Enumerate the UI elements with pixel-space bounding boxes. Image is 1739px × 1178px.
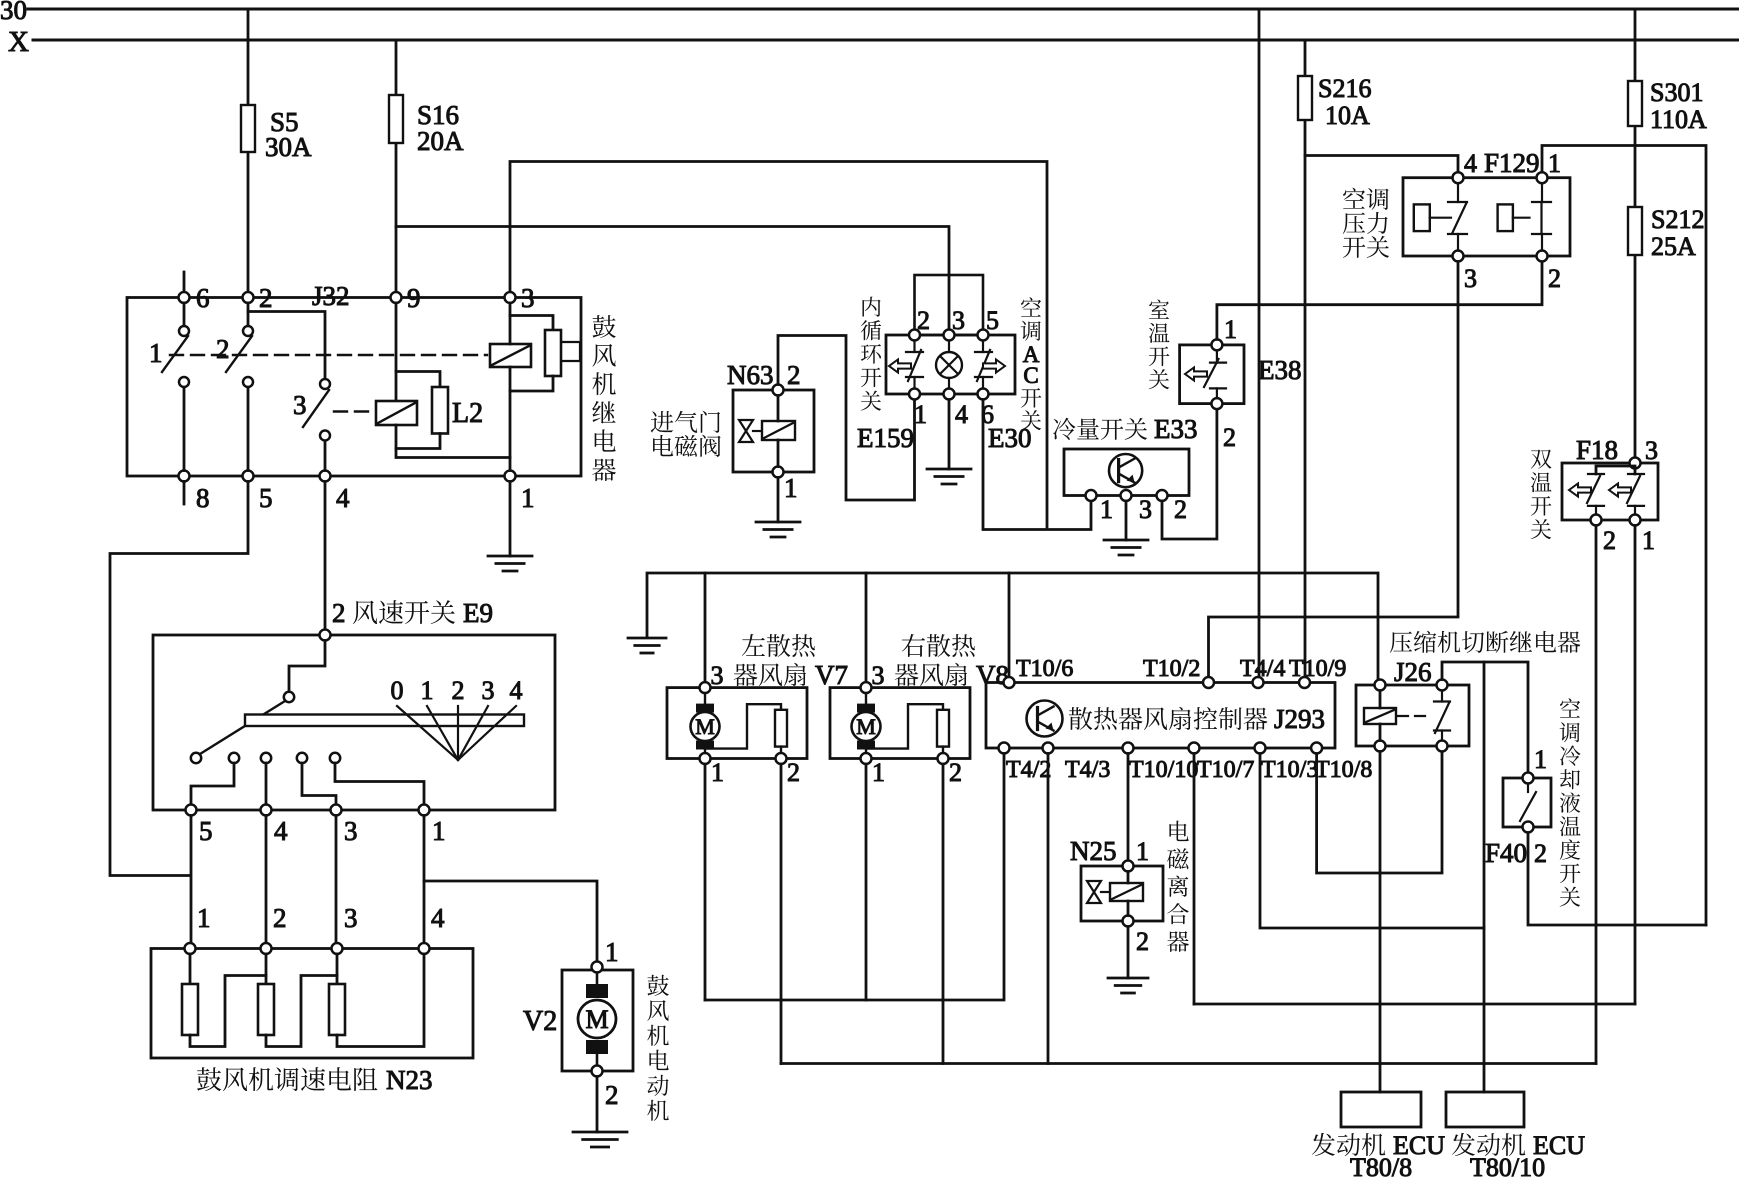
F18 right switch <box>1627 474 1644 515</box>
fuse S301 <box>1628 81 1642 126</box>
N25 pin 1 <box>1123 861 1134 872</box>
wire E9 pin1 node to V2 pin1 <box>424 881 597 960</box>
N23 pin 4 <box>419 943 430 954</box>
V2 pin 1 <box>592 962 603 973</box>
wire V7 pin2 down <box>780 764 783 1064</box>
E33 pin 1 <box>1086 490 1097 501</box>
fan V8 box <box>830 688 970 759</box>
fuse S212 <box>1628 207 1642 255</box>
wire V7 motor to resistor <box>705 704 781 748</box>
resistor N23-R3 <box>336 954 339 984</box>
wire N25 internal <box>1127 872 1130 916</box>
svg-text:2: 2 <box>332 598 346 628</box>
J26 dashed actuation <box>1398 715 1428 717</box>
wire T10/3 to ECU T80/10 net <box>1260 754 1484 929</box>
J32 pin 6 <box>179 292 190 303</box>
svg-text:3: 3 <box>344 903 358 933</box>
wire T10/10 to N25 pin1 <box>1127 754 1130 861</box>
label 散热器风扇控制器 J293 <box>1069 707 1268 730</box>
wire R3 to pin4 <box>337 954 424 1047</box>
E9 pin 4 <box>261 805 272 816</box>
J26 coil <box>1364 708 1396 724</box>
wire bus30 to J32 pin2 <box>247 9 250 293</box>
engine ECU T80/8 box <box>1341 1092 1421 1127</box>
wire E30 pin6 to E33 pin1 <box>983 400 1091 530</box>
F129 pin 1 <box>1537 172 1548 183</box>
ground below E159/E30 pin4 <box>927 469 971 484</box>
resistor R-J32 <box>545 330 561 376</box>
wire J293 T10/6 to rail <box>1008 573 1011 677</box>
svg-text:T10/10: T10/10 <box>1129 757 1198 783</box>
svg-text:30A: 30A <box>265 132 312 162</box>
wire ground rail to J26 TL pin <box>647 573 1378 680</box>
svg-text:E159: E159 <box>857 423 914 453</box>
F129 right pressure contact <box>1498 183 1551 250</box>
svg-text:2: 2 <box>949 758 962 787</box>
E9 position fan lines <box>397 706 516 760</box>
wire L2 bottom loop <box>396 434 440 449</box>
wire V7 pin1 down <box>704 764 707 1000</box>
E30 arrow <box>983 360 1005 373</box>
svg-text:1: 1 <box>605 937 619 967</box>
E159/E30 top link box <box>915 275 984 335</box>
wire J26 BL to ECU T80/8 <box>1379 752 1382 1093</box>
svg-text:1: 1 <box>1100 495 1113 524</box>
fuse S5 <box>241 105 255 152</box>
svg-text:5: 5 <box>199 816 213 846</box>
E9 contact a <box>191 753 201 763</box>
J26 coil leads <box>1379 691 1382 741</box>
E38 pin 1 <box>1211 339 1222 350</box>
E9 contact b <box>229 753 239 763</box>
F129 left pressure contact <box>1414 183 1467 250</box>
svg-text:25A: 25A <box>1651 232 1696 261</box>
J32 switch 3 <box>320 379 330 389</box>
wire S16 node to E159/E30 pin3 <box>396 227 949 331</box>
E30 pin 6 <box>978 389 989 400</box>
svg-text:2: 2 <box>216 334 230 364</box>
pin 6 stub <box>183 272 186 293</box>
wire contact e to pin1 <box>335 763 424 805</box>
motor V2 box <box>562 970 633 1071</box>
wire E33 pin3 to ground <box>1125 501 1128 540</box>
svg-text:T10/9: T10/9 <box>1289 656 1346 682</box>
wire busX to J32 pin9 <box>395 40 398 293</box>
F129 pin 2 <box>1537 251 1548 262</box>
label 空调冷却液温度开关 (AC coolant temperature switch) <box>1560 698 1581 906</box>
switch E159/E30 box <box>886 335 1015 394</box>
E9 rotor pivot <box>284 692 294 702</box>
clutch N25 box <box>1081 866 1163 921</box>
label 电磁离合器 (electromagnetic clutch) <box>1167 821 1189 952</box>
wire T4/3 to fan pin2 net <box>1047 754 1050 1064</box>
wire busX / S216 to J293 T10/9 <box>1304 40 1307 677</box>
bus 30 <box>28 8 1739 11</box>
relay coil K2 (J32) <box>376 401 417 425</box>
N63 pin 1 <box>773 467 784 478</box>
label 室温开关 (room temp switch) <box>1149 299 1170 389</box>
label 发动机 ECU T80/8 <box>1312 1133 1386 1156</box>
svg-text:T10/7: T10/7 <box>1197 757 1254 783</box>
svg-text:T80/8: T80/8 <box>1350 1153 1412 1178</box>
svg-text:E9: E9 <box>463 598 493 628</box>
wire E9 pin4 to N23 pin2 <box>265 816 268 944</box>
V2 motor symbol <box>578 973 616 1066</box>
E9 rotor feed wire <box>289 641 325 692</box>
label 空调压力开关 (AC pressure switch) <box>1343 188 1389 210</box>
J32 pin 4 <box>320 471 331 482</box>
svg-text:C: C <box>1023 363 1038 388</box>
svg-text:F40: F40 <box>1485 838 1527 868</box>
J293 pin T10/6 <box>1004 677 1015 688</box>
svg-text:4: 4 <box>431 903 445 933</box>
svg-text:1: 1 <box>1642 526 1655 555</box>
svg-text:6: 6 <box>196 283 210 313</box>
wire V8 pin3 to rail <box>865 573 868 682</box>
wire E38 pin1 to F129 pin2 <box>1217 262 1542 340</box>
relay J32 box <box>127 298 581 477</box>
resistor N23-R1 <box>189 954 192 984</box>
label 冷量开关 E33 <box>1053 418 1147 440</box>
ground below V2 <box>573 1132 627 1147</box>
svg-text:110A: 110A <box>1650 105 1707 134</box>
F129 pin 4 <box>1453 172 1464 183</box>
V7 pin 2 <box>776 753 787 764</box>
svg-text:1: 1 <box>421 676 434 705</box>
svg-text:N63: N63 <box>727 360 774 390</box>
svg-text:J32: J32 <box>312 281 350 311</box>
svg-text:S216: S216 <box>1318 74 1371 103</box>
wire J32 pin3 to pin1 through coil <box>509 303 512 471</box>
J32 switch 1 <box>183 303 186 326</box>
wire to resistor R-J32 <box>510 316 553 331</box>
svg-text:T4/4: T4/4 <box>1240 656 1285 682</box>
svg-text:3: 3 <box>482 676 495 705</box>
wire V8 pin1 down <box>865 764 868 1000</box>
wire bus30 to J293 T4/4 <box>1258 9 1261 677</box>
wire T10/7 down <box>1193 754 1196 1005</box>
F18 pin 1 <box>1630 515 1641 526</box>
relay coil L2 branch from pin9 <box>395 303 398 401</box>
J26 pin TL <box>1375 680 1386 691</box>
ground below N25 <box>1108 978 1148 993</box>
svg-text:T10/3: T10/3 <box>1261 757 1318 783</box>
fan V7 box <box>667 688 807 759</box>
resistor N23-R2 <box>265 954 268 984</box>
svg-text:2: 2 <box>1174 495 1187 524</box>
pin 3 <box>944 330 955 341</box>
fuse S216 <box>1298 76 1312 120</box>
N63 valve symbol <box>739 420 753 442</box>
svg-text:T10/6: T10/6 <box>1016 656 1073 682</box>
wire bus30 to S301/S212/F18 pin3 <box>1634 9 1637 458</box>
N25 valve symbol <box>1087 881 1101 903</box>
N25 coil <box>1110 883 1143 901</box>
wire J32 pin5 to N23 pin1 node <box>110 482 248 876</box>
V7 motor symbol <box>691 693 720 753</box>
wire to inductor L2 <box>396 372 440 388</box>
J293 pin T10/10 <box>1123 743 1134 754</box>
label 发动机 ECU T80/10 <box>1452 1133 1526 1156</box>
svg-text:1: 1 <box>914 400 927 429</box>
svg-text:1: 1 <box>872 758 885 787</box>
svg-text:5: 5 <box>259 483 273 513</box>
E9 pin 1 <box>419 805 430 816</box>
wire N63 pin2 to E159 pin1 <box>778 336 915 501</box>
wire V8 motor to resistor <box>866 704 943 748</box>
wire N63 pin1 to ground <box>777 478 780 523</box>
J26 pin BL <box>1375 741 1386 752</box>
svg-text:2: 2 <box>1223 423 1236 452</box>
svg-text:M: M <box>585 1005 608 1034</box>
svg-text:20A: 20A <box>417 126 464 156</box>
F18 internal link <box>1596 466 1635 474</box>
wire R1 to pin2 node <box>190 976 266 1047</box>
F18 right arrow <box>1609 484 1631 497</box>
wire N25 pin2 to ground <box>1127 927 1130 979</box>
svg-text:1: 1 <box>521 483 535 513</box>
J32 pin 3 <box>505 292 516 303</box>
engine ECU T80/10 box <box>1446 1092 1524 1127</box>
wire F40 pin2 to F129 pin1 net <box>1528 833 1706 926</box>
F40 pin 1 <box>1523 773 1534 784</box>
J32 pin 5 <box>243 471 254 482</box>
V8 pin 3 <box>861 682 872 693</box>
svg-text:3: 3 <box>293 390 307 420</box>
ground on rail <box>628 638 666 653</box>
relay coil K1 (J32) <box>490 344 531 367</box>
E9 contact c <box>261 753 271 763</box>
E9 contact track <box>245 715 524 727</box>
wire E33 pin2 to E38 pin2 <box>1162 409 1217 539</box>
svg-text:30: 30 <box>0 0 27 25</box>
wire J32 pin4 to E9 pin2 <box>324 482 327 630</box>
svg-text:E30: E30 <box>988 423 1032 453</box>
wire T10/7 to F18 pin1 net <box>1194 1003 1635 1006</box>
switch E38 box <box>1180 345 1244 404</box>
svg-text:N23: N23 <box>386 1065 433 1095</box>
svg-text:1: 1 <box>784 473 798 503</box>
svg-text:2: 2 <box>787 758 800 787</box>
ground below J32 pin1 <box>488 556 532 571</box>
wire J32 pin2 node to switch 3 <box>248 312 325 379</box>
svg-text:2: 2 <box>1136 927 1149 956</box>
N23 pin 3 <box>332 943 343 954</box>
J293 pin T4/2 <box>999 743 1010 754</box>
inductor L2 <box>432 387 448 434</box>
J293 pin T4/4 <box>1253 677 1264 688</box>
E9 pin 3 <box>331 805 342 816</box>
solenoid N63 box <box>733 390 814 472</box>
label 空调AC开关 (AC switch) <box>1021 297 1042 340</box>
E159 pin 2 <box>909 330 920 341</box>
wire pin4 to ground <box>948 400 951 470</box>
svg-text:J293: J293 <box>1274 704 1325 734</box>
wire F18 pin1 down to T10/7 net <box>1634 526 1637 1005</box>
switch E9 box <box>153 635 555 810</box>
wire F129 pin3 to J293 T10/2 <box>1209 262 1459 678</box>
wire branch to ECU T80/10 <box>1483 662 1486 1092</box>
svg-text:8: 8 <box>196 483 210 513</box>
J293 pin T10/3 <box>1255 743 1266 754</box>
wire J32 pin1 to ground <box>509 482 512 557</box>
label 风速开关 E9 <box>353 600 455 624</box>
V7 pin 1 <box>700 753 711 764</box>
svg-text:2: 2 <box>605 1080 619 1110</box>
label 压缩机切断继电器 (compressor cutoff relay) <box>1390 631 1581 653</box>
label 内循环开关 (recirculation switch) <box>861 297 882 411</box>
svg-text:5: 5 <box>986 306 999 335</box>
switch F18 box <box>1562 463 1658 520</box>
wire R2 to pin3 node <box>266 976 337 1047</box>
J293 pin T10/2 <box>1203 677 1214 688</box>
svg-text:T10/2: T10/2 <box>1143 656 1200 682</box>
wire F18 pin2 down to fan speed-2 net <box>1595 526 1598 1064</box>
svg-text:T4/2: T4/2 <box>1006 757 1051 783</box>
E33 pin 2 <box>1157 490 1168 501</box>
J293 transistor symbol <box>1027 701 1063 737</box>
wire resistor to pin2 <box>942 747 944 753</box>
svg-text:1: 1 <box>1534 745 1547 774</box>
svg-text:4: 4 <box>274 816 288 846</box>
svg-text:T10/8: T10/8 <box>1315 757 1372 783</box>
E33 transistor symbol <box>1109 454 1142 487</box>
label 右散热器风扇 V8 <box>902 634 975 657</box>
N23 pin 1 <box>185 943 196 954</box>
svg-text:3: 3 <box>344 816 358 846</box>
svg-text:E38: E38 <box>1258 355 1302 385</box>
controller J293 box <box>986 683 1335 749</box>
pin 8 stub <box>183 482 186 505</box>
wire fan pin1 net to T4/2 <box>705 754 1004 1001</box>
indicator lamp E30 unit <box>936 341 962 389</box>
J32 pin 2 <box>243 292 254 303</box>
E9 pin 2 <box>320 630 331 641</box>
connector bracket symbol <box>563 342 580 361</box>
label 双温开关 (dual temp switch) <box>1531 450 1552 540</box>
wire T10/8 to J26 pin BR <box>1317 752 1442 874</box>
wire resistor to pin1 line <box>510 376 553 391</box>
svg-text:0: 0 <box>391 676 404 705</box>
svg-text:V7: V7 <box>815 660 848 690</box>
svg-text:S301: S301 <box>1650 78 1703 107</box>
E159 recirculation switch symbol <box>906 341 923 389</box>
E9 pin 5 <box>186 805 197 816</box>
svg-text:1: 1 <box>197 903 211 933</box>
F18 left arrow <box>1569 484 1591 497</box>
label 左散热器风扇 V7 <box>742 634 815 657</box>
E38 arrow <box>1185 368 1207 381</box>
J32 actuation dashed line <box>170 354 487 356</box>
svg-text:1: 1 <box>432 816 446 846</box>
svg-text:M: M <box>695 714 715 739</box>
svg-text:T4/3: T4/3 <box>1065 757 1110 783</box>
J293 pin T10/7 <box>1189 743 1200 754</box>
svg-text:N25: N25 <box>1070 836 1117 866</box>
wire contact c to pin4 <box>265 763 268 805</box>
V8 pin 1 <box>861 753 872 764</box>
label 鼓风机电动机 (blower motor) <box>647 975 669 1121</box>
E33 pin 3 <box>1121 490 1132 501</box>
F129 pin 3 <box>1453 251 1464 262</box>
wire V2 pin2 to ground <box>596 1077 599 1133</box>
E38 switch symbol <box>1204 350 1226 398</box>
svg-text:2: 2 <box>452 676 465 705</box>
wire E9 pin5 to N23 pin1 <box>190 816 193 944</box>
resistor V7 <box>775 710 787 747</box>
wire E9 pin1 to N23 pin4 <box>423 816 426 944</box>
svg-text:2: 2 <box>273 903 287 933</box>
svg-text:2: 2 <box>917 306 930 335</box>
svg-text:2: 2 <box>1548 264 1561 293</box>
pressure switch F129 box <box>1403 178 1570 256</box>
switch F40 box <box>1503 778 1551 827</box>
wire J26 TR to F40 pin1 <box>1442 662 1528 773</box>
J293 pin T4/3 <box>1043 743 1054 754</box>
E159 pin 1 <box>909 389 920 400</box>
label 鼓风机继电器 (blower relay) <box>592 315 616 481</box>
svg-text:3: 3 <box>521 283 535 313</box>
relay J26 box <box>1356 685 1469 746</box>
svg-text:S212: S212 <box>1651 205 1704 234</box>
wire S216 node to F129 pin4 <box>1305 156 1458 173</box>
J32 pin 1 <box>505 471 516 482</box>
svg-text:F18: F18 <box>1576 435 1618 465</box>
E9 rotor arm <box>200 701 285 754</box>
ground below N63 <box>756 522 800 537</box>
J32 pin 9 <box>391 292 402 303</box>
F40 switch blade <box>1520 784 1536 822</box>
svg-text:F129: F129 <box>1484 148 1540 178</box>
svg-text:4: 4 <box>955 400 968 429</box>
J26 pin TR <box>1437 680 1448 691</box>
V8 motor symbol <box>852 693 881 753</box>
N23 pin 2 <box>261 943 272 954</box>
N25 pin 2 <box>1123 916 1134 927</box>
svg-text:1: 1 <box>1136 837 1149 866</box>
F18 pin 3 <box>1630 458 1641 469</box>
wire N63 internal <box>777 396 780 467</box>
svg-text:L2: L2 <box>452 398 483 429</box>
wire contact b to pin5 <box>191 763 234 805</box>
J32 pin 8 <box>179 471 190 482</box>
E159 arrow <box>889 360 911 373</box>
svg-text:T80/10: T80/10 <box>1470 1153 1545 1178</box>
N63 coil <box>762 421 795 440</box>
svg-text:1: 1 <box>1548 149 1561 178</box>
E9 contact d <box>297 753 307 763</box>
svg-text:1: 1 <box>149 338 163 368</box>
svg-text:2: 2 <box>259 283 273 313</box>
wire contact d to pin3 <box>302 763 336 805</box>
ground below E33 pin3 <box>1104 540 1148 555</box>
bus X <box>33 39 1739 42</box>
svg-text:J26: J26 <box>1394 657 1432 687</box>
svg-text:9: 9 <box>407 283 421 313</box>
svg-text:4: 4 <box>510 676 523 705</box>
J293 pin T10/9 <box>1299 677 1310 688</box>
svg-text:X: X <box>8 26 29 58</box>
wire resistor to pin2 <box>780 747 782 753</box>
svg-text:4: 4 <box>1464 149 1477 178</box>
svg-text:3: 3 <box>1139 495 1152 524</box>
svg-text:2: 2 <box>1603 526 1616 555</box>
svg-text:E33: E33 <box>1154 414 1198 444</box>
svg-text:M: M <box>856 714 876 739</box>
wire coil K2 to pin1 line <box>396 425 510 458</box>
svg-text:3: 3 <box>952 306 965 335</box>
J26 switch <box>1434 691 1450 741</box>
